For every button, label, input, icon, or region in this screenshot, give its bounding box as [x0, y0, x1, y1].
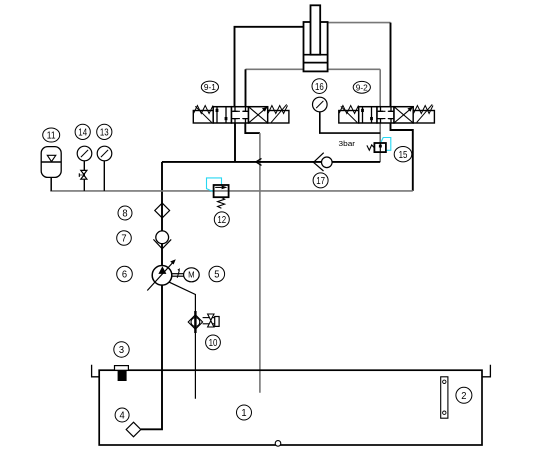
strainer 4	[126, 422, 141, 437]
label 4	[115, 408, 129, 422]
relief valve 12	[207, 178, 229, 208]
label 7	[117, 231, 132, 246]
valve 9-2 position box a (parallel arrows)	[359, 107, 377, 123]
needle valve on gauge 14 line	[79, 170, 87, 179]
label 12	[214, 212, 229, 227]
wire vertical to 9-2 B	[379, 69, 381, 106]
svg-text:3bar: 3bar	[339, 139, 356, 148]
svg-text:14: 14	[78, 128, 87, 139]
drain port	[275, 441, 281, 447]
label 6	[117, 266, 133, 282]
arrowhead on return line	[256, 158, 262, 165]
wire 9-2 P jog to right riser	[391, 123, 413, 191]
wire cylinder rod-side right to 9-2	[328, 22, 391, 24]
wire rod-side cylinder to valve 9-1 A	[235, 27, 304, 107]
wire vertical to 9-2 A	[390, 23, 392, 107]
wire accumulator leg	[50, 177, 52, 191]
svg-text:11: 11	[47, 131, 56, 142]
breather 3	[115, 366, 129, 381]
pump 6	[147, 259, 180, 290]
svg-text:8: 8	[122, 209, 127, 220]
svg-text:16: 16	[315, 82, 324, 93]
svg-text:4: 4	[120, 411, 125, 422]
gauge 16	[313, 97, 328, 112]
cylinder C1 body	[304, 5, 328, 71]
label 10	[206, 335, 221, 350]
wire drain vertical to tank	[259, 133, 261, 393]
label 8	[118, 206, 132, 220]
wire 9-1 P jog	[245, 123, 260, 133]
wire pump case drain to tank	[169, 282, 196, 399]
svg-text:15: 15	[399, 150, 408, 161]
pump shaft	[172, 274, 184, 277]
label 14	[75, 124, 90, 139]
label 17	[313, 173, 328, 188]
svg-text:M: M	[188, 271, 195, 280]
label 16	[312, 79, 327, 94]
wire cylinder bottom right segment	[328, 68, 381, 70]
gauge 13	[97, 146, 112, 161]
wire 9-2 left port down through relief 19	[379, 123, 381, 162]
valve 9-1 position box b (crossed)	[249, 107, 268, 123]
relief valve 19	[367, 138, 391, 153]
valve 9-1 solenoid right	[268, 104, 289, 123]
wire left riser	[161, 162, 163, 266]
svg-text:17: 17	[316, 176, 325, 187]
svg-text:13: 13	[100, 128, 109, 139]
level gauge 2	[441, 377, 448, 418]
svg-text:3: 3	[119, 345, 124, 356]
wire pressure rail gray	[50, 190, 413, 192]
valve 9-2 position box center (closed)	[377, 107, 394, 123]
label 13	[97, 124, 112, 139]
wire gauge 16 down and right	[320, 112, 380, 133]
svg-text:9-2: 9-2	[356, 83, 369, 92]
accumulator 11	[41, 147, 61, 178]
valve 9-2 position box b (crossed)	[394, 107, 413, 123]
valve 9-1 solenoid left	[193, 106, 213, 124]
wire pump suction to strainer	[141, 285, 162, 429]
svg-text:12: 12	[217, 215, 226, 226]
motor M	[184, 268, 200, 282]
wire vertical to 9-1 B	[245, 69, 247, 106]
label 11	[43, 128, 60, 142]
label 2	[456, 387, 472, 403]
label 9-1	[201, 81, 218, 93]
wire gauge 13 leg	[103, 161, 105, 191]
svg-text:1: 1	[241, 408, 246, 419]
svg-text:2: 2	[461, 391, 466, 402]
label 15	[394, 147, 412, 162]
wire horizontal return line y162	[162, 161, 380, 163]
svg-text:7: 7	[121, 234, 126, 245]
valve 9-2 solenoid right	[413, 104, 434, 123]
svg-text:9-1: 9-1	[204, 83, 217, 92]
wire 9-1 T down to return line	[234, 123, 236, 162]
check valve 10	[188, 311, 219, 333]
gauge 14	[77, 146, 92, 161]
wire cylinder bottom left segment	[246, 68, 304, 70]
label 3	[114, 342, 129, 357]
label 5	[209, 266, 225, 282]
check valve 17	[314, 153, 333, 171]
check valve 7	[153, 231, 171, 249]
wire gauge 14 leg	[83, 161, 85, 191]
valve 9-1 position box a (parallel arrows)	[213, 107, 231, 123]
tank T1	[92, 365, 491, 445]
svg-text:10: 10	[209, 338, 218, 349]
svg-text:6: 6	[122, 270, 127, 281]
label 9-2	[353, 81, 370, 93]
valve 9-2 solenoid left	[339, 106, 359, 124]
valve 9-1 position box center (closed)	[232, 107, 249, 123]
svg-text:5: 5	[214, 270, 219, 281]
label 1	[237, 405, 252, 420]
filter 8	[155, 203, 170, 218]
